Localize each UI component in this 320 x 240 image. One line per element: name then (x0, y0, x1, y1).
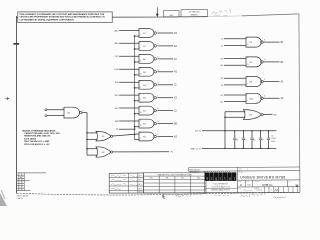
first used on row (189, 167, 300, 174)
svg-text:F2: F2 (221, 78, 224, 80)
svg-text:5: 5 (140, 47, 141, 49)
svg-text:E2 IS 74H00: E2 IS 74H00 (24, 137, 37, 140)
sheet bottom border (16, 192, 300, 195)
wire E5 input a (45, 109, 64, 111)
junction enable bus 4 (134, 74, 136, 76)
svg-text:BE2: BE2 (115, 43, 120, 45)
svg-text:DATE: DATE (138, 179, 142, 182)
svg-text:6: 6 (157, 44, 158, 46)
junction enable bus 3 (134, 61, 136, 63)
svg-text:+5V T1: +5V T1 (194, 131, 202, 133)
svg-text:10: 10 (140, 112, 142, 114)
svg-text:CAPACITORS ARE .01UF, 100V, 20: CAPACITORS ARE .01UF, 100V, 20% (24, 132, 60, 135)
svg-text:i: i (210, 176, 212, 181)
svg-text:K2: K2 (174, 98, 178, 100)
svg-text:EJ2: EJ2 (115, 82, 119, 84)
svg-text:3: 3 (157, 134, 158, 136)
svg-text:13: 13 (140, 125, 142, 127)
svg-text:TITLE: TITLE (239, 172, 243, 174)
svg-text:9: 9 (140, 55, 141, 57)
wire E9 input b (225, 116, 246, 118)
svg-text:10: 10 (140, 60, 142, 62)
svg-text:UNIBUS DRIVERS M785: UNIBUS DRIVERS M785 (240, 176, 285, 180)
svg-text:E Q U I P M E N T: E Q U I P M E N T (213, 183, 229, 185)
junction enable bus 6 (134, 100, 136, 102)
svg-text:SIZE: SIZE (238, 181, 241, 183)
header box REV (164, 10, 179, 17)
capacitor C7 (242, 130, 247, 149)
svg-text:6: 6 (157, 95, 158, 97)
svg-text:E4: E4 (143, 137, 146, 139)
svg-text:TRANSISTOR & DIODE CONVERSION: TRANSISTOR & DIODE CONVERSION CHART (157, 173, 192, 176)
svg-text:E4: E4 (250, 82, 253, 84)
svg-text:SHADED: SHADED (191, 14, 199, 17)
svg-text:M785-0-1: M785-0-1 (262, 184, 273, 187)
junction GND at x225 (224, 148, 226, 150)
svg-text:C6: C6 (236, 139, 238, 141)
svg-text:l: l (233, 176, 235, 181)
rev cell mark (296, 185, 299, 187)
gate E5 (62, 107, 83, 118)
svg-text:t: t (224, 177, 226, 181)
wire input J2 (221, 39, 246, 41)
wire enable branch gate 3 (135, 61, 139, 63)
svg-text:3: 3 (157, 31, 158, 33)
svg-text:E5: E5 (68, 113, 71, 115)
wire enable branch gate 1 (135, 35, 139, 37)
svg-text:M2: M2 (174, 124, 178, 126)
gate E3 receiver 1 (246, 37, 265, 47)
svg-text:4: 4 (140, 93, 141, 95)
svg-text:100V: 100V (271, 141, 276, 143)
gate E7 receiver 2 (246, 57, 266, 67)
svg-text:E2: E2 (143, 33, 146, 35)
wire P1 (116, 129, 135, 131)
svg-text:QTY.: QTY. (239, 169, 242, 171)
wire input D1 (221, 102, 246, 104)
dec form text (17, 196, 29, 200)
svg-text:DATE: DATE (138, 190, 142, 193)
svg-text:UNLESS OTHERWISE INDICATED:: UNLESS OTHERWISE INDICATED: (22, 129, 56, 132)
title block outline (109, 173, 300, 193)
svg-text:i: i (220, 176, 222, 181)
svg-text:L2: L2 (174, 111, 177, 113)
gate E2 driver 7 (139, 106, 158, 115)
wire output E2 (157, 46, 177, 48)
wire input CF2 (115, 56, 139, 58)
svg-text:F1: F1 (221, 85, 224, 87)
sheet right border (299, 14, 300, 192)
svg-text:9: 9 (247, 37, 248, 39)
svg-text:11: 11 (264, 59, 266, 61)
svg-text:6: 6 (264, 96, 265, 98)
svg-text:E6: E6 (143, 72, 146, 74)
conversion chart (144, 173, 207, 193)
svg-text:DATE: DATE (138, 175, 142, 178)
svg-text:1: 1 (140, 132, 141, 134)
svg-text:D2: D2 (221, 95, 225, 97)
capacitor C6 (233, 130, 238, 149)
svg-text:JM2: JM2 (115, 121, 120, 123)
notice box (18, 12, 112, 23)
svg-text:E6: E6 (143, 59, 146, 61)
wire E8 input b (87, 154, 98, 156)
number row (238, 180, 300, 187)
svg-text:H2: H2 (174, 72, 178, 74)
svg-text:E4: E4 (143, 85, 146, 87)
svg-text:CF2: CF2 (115, 56, 120, 58)
enable bus vertical (134, 36, 136, 140)
svg-text:A1: A1 (281, 81, 285, 84)
junction cluster bus a (86, 132, 88, 134)
svg-text:OPTION/MODEL: OPTION/MODEL (189, 172, 200, 174)
svg-text:D: D (240, 184, 242, 187)
gate E2 driver 2 (139, 42, 158, 51)
svg-text:E3: E3 (250, 42, 253, 44)
svg-text:12: 12 (140, 68, 142, 70)
svg-text:2: 2 (247, 84, 248, 86)
svg-text:2: 2 (140, 86, 141, 88)
svg-text:4: 4 (140, 42, 141, 44)
wire E9 inputs to +5V (224, 112, 226, 131)
svg-text:DATE: DATE (138, 183, 142, 186)
pencil mark E (163, 195, 165, 199)
svg-text:E3: E3 (250, 115, 253, 117)
capacitor C9 (259, 130, 264, 149)
svg-text:E1: E1 (102, 136, 105, 138)
svg-text:C9: C9 (262, 139, 264, 141)
svg-text:AD2: AD2 (115, 29, 120, 32)
svg-text:13: 13 (140, 73, 142, 75)
gate E6 driver 3 (139, 55, 158, 64)
wire E9 input a (225, 111, 245, 113)
svg-text:10: 10 (247, 44, 249, 46)
svg-text:FIRST USED ON: FIRST USED ON (189, 169, 199, 171)
svg-text:H2: H2 (221, 59, 225, 61)
svg-text:D2: D2 (174, 33, 178, 35)
wire input J1 (221, 45, 246, 47)
gate E2 driver 1 (139, 29, 158, 38)
svg-text:H1: H1 (221, 65, 225, 67)
wire input F2 (221, 78, 246, 80)
border tick mark left (13, 43, 19, 45)
svg-text:1/2 GRID IN B: 1/2 GRID IN B (189, 12, 201, 14)
svg-text:13: 13 (247, 64, 249, 66)
svg-text:RESISTORS ARE 1/4W, 5%: RESISTORS ARE 1/4W, 5% (24, 135, 50, 138)
gate E8 (96, 147, 113, 157)
svg-text:A: A (20, 176, 21, 179)
svg-text:B1: B1 (281, 42, 285, 44)
junction P1 (134, 128, 136, 130)
svg-text:5: 5 (140, 99, 141, 101)
wire input AD2 (115, 29, 139, 32)
svg-text:M2: M2 (274, 114, 278, 116)
svg-text:DEC FORM NO: DEC FORM NO (17, 196, 29, 198)
junction enable bus 7 (134, 113, 136, 115)
sheet top border (17, 14, 299, 17)
header box grid note (181, 10, 208, 17)
wire output M2 (157, 124, 178, 126)
svg-text:E2: E2 (143, 111, 146, 113)
svg-text:CIRCUITS ARE PROPRIETARY IN NA: CIRCUITS ARE PROPRIETARY IN NATURE AND S… (19, 16, 105, 19)
svg-text:1: 1 (140, 81, 141, 83)
svg-text:5: 5 (247, 100, 248, 102)
svg-text:E2: E2 (143, 46, 146, 48)
margin arrow left (5, 98, 9, 100)
svg-text:F2: F2 (174, 59, 177, 61)
wire output J2 (157, 85, 177, 87)
wire input HL2 (115, 108, 139, 110)
svg-text:REV: REV (170, 15, 174, 17)
wire enable branch gate 2 (135, 48, 139, 50)
capacitor C8 (250, 130, 255, 149)
signature table (109, 173, 143, 194)
wire input BE2 (115, 43, 139, 45)
gate E4 driver 5 (139, 80, 158, 89)
gate E4 driver 9 (139, 132, 158, 141)
wire E8 output P2 (113, 152, 174, 154)
junction +5V at x225 (224, 130, 226, 132)
gate E1 (96, 131, 113, 141)
pencil word driver (274, 197, 286, 199)
gate E6 driver 4 (139, 67, 159, 76)
wire enable branch gate 4 (135, 74, 139, 76)
GND rail (190, 148, 276, 150)
wire enable branch gate 5 (135, 87, 139, 89)
pencil note bottom (176, 192, 229, 197)
svg-text:E6: E6 (143, 124, 146, 126)
wire output A1 (263, 81, 284, 84)
wire E1 input b (87, 138, 98, 140)
svg-text:12: 12 (247, 57, 249, 59)
svg-text:8: 8 (264, 39, 265, 41)
svg-text:E10: E10 (250, 98, 255, 100)
svg-text:J2: J2 (221, 39, 224, 41)
wire output D2 (157, 33, 177, 35)
wire output H2 (157, 72, 177, 74)
wire E8 input a (87, 148, 98, 150)
svg-text:8: 8 (157, 108, 158, 110)
wire output F2 (157, 59, 177, 61)
svg-text:THIS SCHEMATIC IS FURNISHED ON: THIS SCHEMATIC IS FURNISHED ONLY FOR TES… (19, 13, 104, 16)
DEC digital logo (204, 171, 237, 193)
svg-text:C7: C7 (244, 139, 246, 141)
svg-text:11: 11 (157, 121, 159, 123)
svg-text:N2: N2 (174, 136, 178, 138)
wire E5 input b (45, 115, 64, 117)
junction cluster bus c (86, 148, 88, 150)
junction enable bus 5 (134, 87, 136, 89)
wire input EJ2 (115, 82, 139, 84)
svg-text:MAYNARD, MASSACHUSETTS: MAYNARD, MASSACHUSETTS (211, 189, 230, 192)
gate E9 (244, 110, 264, 120)
svg-text:4: 4 (247, 93, 248, 95)
svg-text:8: 8 (157, 57, 158, 59)
svg-text:P1: P1 (116, 129, 119, 131)
svg-text:CS: CS (247, 185, 251, 187)
wire input H1 (221, 65, 246, 67)
wire enable branch gate 9 (135, 139, 139, 141)
svg-text:DH2: DH2 (114, 69, 119, 71)
wire E9 output M2 (263, 114, 277, 116)
svg-text:EIA: EIA (166, 177, 169, 180)
svg-text:REV.: REV. (289, 181, 292, 183)
sheet left border (16, 16, 18, 193)
junction enable bus 8 (134, 126, 136, 128)
svg-text:d: d (206, 176, 208, 181)
sheet row (238, 187, 300, 193)
wire E1 input a (87, 132, 98, 134)
svg-text:DRN.: DRN. (238, 188, 242, 190)
svg-text:B2: B2 (281, 62, 285, 64)
wire output N2 (157, 136, 177, 138)
title box (238, 171, 286, 192)
svg-text:P2: P2 (171, 152, 174, 154)
svg-text:FK2: FK2 (115, 95, 120, 97)
svg-text:12: 12 (140, 119, 142, 121)
svg-text:g: g (215, 177, 217, 181)
svg-text:E7: E7 (250, 62, 253, 64)
svg-text:3: 3 (157, 82, 158, 84)
wire enable branch gate 6 (135, 100, 139, 102)
wire enable branch gate 8 (135, 126, 139, 128)
gate E4 driver 6 (139, 93, 158, 102)
svg-text:2: 2 (140, 138, 141, 140)
svg-text:EIA: EIA (197, 177, 200, 180)
wire output B1 (263, 42, 284, 44)
svg-text:E4: E4 (143, 98, 146, 100)
notes text (22, 129, 60, 146)
gate E10 receiver 4 (246, 93, 265, 103)
svg-text:HL2: HL2 (115, 108, 120, 110)
svg-text:BY DIGITAL EQUIPMENT CORPORATI: BY DIGITAL EQUIPMENT CORPORATION (35, 18, 75, 21)
svg-text:1: 1 (247, 77, 248, 79)
svg-text:C8: C8 (253, 139, 255, 141)
wire output A2 (263, 97, 284, 100)
svg-text:E8: E8 (102, 152, 105, 154)
wire E9 tie to GND (224, 131, 226, 149)
junction cluster bus b (86, 139, 88, 141)
svg-text:C O R P O R A T I O N: C O R P O R A T I O N (212, 185, 231, 188)
wire input D2 (221, 95, 246, 97)
wire enable branch gate 7 (135, 113, 139, 115)
down arrow marker (156, 7, 159, 17)
svg-text:3: 3 (264, 79, 265, 81)
wire input FK2 (115, 95, 139, 97)
svg-text:SHEET: SHEET (255, 188, 260, 190)
junction E9 input tie (224, 117, 226, 119)
wire input H2 (221, 59, 246, 61)
svg-text:DATE: DATE (138, 187, 142, 190)
svg-text:11: 11 (157, 69, 159, 71)
svg-text:D1: D1 (221, 102, 225, 104)
svg-text:A2: A2 (281, 97, 285, 100)
wire output B2 (263, 62, 284, 64)
wire E1 output to gate 9 (113, 134, 139, 136)
wire output K2 (157, 98, 177, 100)
svg-text:2: 2 (140, 35, 141, 37)
pencil note number (241, 193, 266, 197)
revision table (17, 173, 47, 191)
junction enable bus 2 (134, 48, 136, 50)
pencil note top (212, 10, 231, 16)
wire E5 output to cluster bus (82, 113, 87, 156)
svg-text:6: 6 (82, 110, 83, 112)
svg-text:PIN 14 ON EACH IC = +5V: PIN 14 ON EACH IC = +5V (24, 143, 50, 146)
svg-text:1: 1 (140, 29, 141, 31)
gate E4 receiver 3 (246, 77, 265, 87)
svg-text:GND C2,T1: GND C2,T1 (190, 148, 202, 150)
svg-text:J2: J2 (174, 85, 177, 87)
gate E6 driver 8 (139, 119, 159, 128)
wire output L2 (157, 111, 177, 113)
junction enable bus root (134, 134, 136, 136)
capacitor C5 (267, 130, 277, 149)
svg-text:9: 9 (140, 106, 141, 108)
+5V rail (194, 131, 276, 133)
svg-text:J1: J1 (221, 45, 224, 47)
svg-text:1: 1 (271, 190, 272, 192)
corner smudge (0, 190, 7, 206)
wire input JM2 (115, 121, 139, 123)
junction enable bus 1 (134, 35, 136, 37)
svg-text:E2: E2 (174, 46, 178, 48)
wire input F1 (221, 85, 246, 87)
svg-text:PIN 7 ON EACH IC = GND: PIN 7 ON EACH IC = GND (24, 140, 49, 143)
svg-text:CODE: CODE (246, 181, 250, 183)
wire input DH2 (114, 69, 139, 71)
